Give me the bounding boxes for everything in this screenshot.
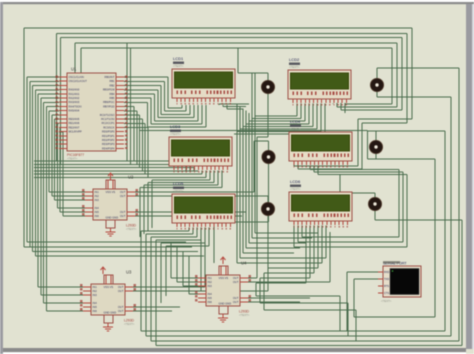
power +V U3 — [101, 267, 106, 274]
svg-text:OSC1/CLKIN: OSC1/CLKIN — [69, 75, 85, 79]
serial port P1 — [378, 261, 421, 303]
svg-text:<TEXT>: <TEXT> — [173, 64, 184, 68]
svg-text:OUT: OUT — [120, 210, 126, 214]
wire middle vertical bus — [219, 73, 318, 263]
svg-text:RA2/AN2: RA2/AN2 — [69, 96, 80, 100]
svg-text:OSC2/CLKOUT: OSC2/CLKOUT — [69, 79, 88, 83]
wire under-U1 bundle — [34, 161, 206, 178]
svg-text:GND GND: GND GND — [219, 301, 232, 305]
svg-text:<TEXT>: <TEXT> — [290, 187, 301, 191]
svg-text:RB1: RB1 — [109, 79, 115, 83]
svg-text:IN5: IN5 — [208, 296, 213, 300]
svg-text:RC1/T1OSI: RC1/T1OSI — [101, 117, 115, 121]
wire motor M3 net — [214, 141, 269, 263]
svg-text:<TEXT>: <TEXT> — [170, 132, 181, 136]
window left border — [0, 2, 3, 354]
svg-text:IN3: IN3 — [95, 198, 100, 202]
svg-text:RB3/PGM: RB3/PGM — [103, 88, 115, 92]
svg-text:RD0/PSP0: RD0/PSP0 — [102, 130, 115, 134]
svg-text:RB5: RB5 — [109, 96, 115, 100]
svg-text:GND GND: GND GND — [106, 215, 119, 219]
svg-text:RC3/SCK: RC3/SCK — [103, 125, 115, 129]
motor M5 — [261, 202, 274, 215]
svg-text:RD1/PSP1: RD1/PSP1 — [102, 134, 115, 138]
svg-text:IN2: IN2 — [93, 289, 98, 293]
LCD LCD5 — [172, 181, 235, 230]
svg-text:<TEXT>: <TEXT> — [381, 299, 392, 303]
svg-text:RA0/AN0: RA0/AN0 — [69, 88, 80, 92]
svg-text:IN5: IN5 — [93, 305, 98, 309]
wire LCD5 feeds — [141, 228, 209, 346]
svg-text:IN4: IN4 — [95, 206, 100, 210]
microcontroller U1 PIC16F877 — [56, 67, 128, 161]
wire U4 out — [248, 232, 330, 302]
wire LCD2 feeds — [234, 104, 325, 135]
wire U2 out — [135, 192, 254, 216]
svg-text:IN2: IN2 — [208, 280, 213, 284]
wire LCD6 feeds — [256, 226, 326, 311]
svg-text:IN6: IN6 — [95, 214, 100, 218]
wire motor M1 net — [238, 48, 268, 278]
svg-text:OUT: OUT — [233, 300, 239, 304]
svg-text:<TEXT>: <TEXT> — [126, 227, 137, 231]
svg-text:LCD6: LCD6 — [290, 179, 301, 184]
svg-text:CTS: CTS — [384, 292, 389, 295]
svg-text:IN3: IN3 — [93, 293, 98, 297]
svg-text:IN6: IN6 — [208, 300, 213, 304]
wire left staircase bus — [27, 77, 204, 311]
svg-text:RA3/AN3: RA3/AN3 — [69, 100, 80, 104]
motor M1 — [261, 80, 274, 93]
svg-text:U2: U2 — [128, 175, 134, 180]
svg-text:OUT: OUT — [233, 280, 239, 284]
svg-text:RC0/T1OSO: RC0/T1OSO — [100, 113, 115, 117]
motor M2 — [370, 78, 383, 91]
svg-text:<TEXT>: <TEXT> — [67, 157, 78, 161]
motor M4 — [369, 140, 382, 153]
wire motor M4 net — [368, 131, 446, 331]
svg-text:IN1: IN1 — [93, 285, 98, 289]
svg-text:OUT: OUT — [120, 190, 126, 194]
svg-text:RC2/CCP1: RC2/CCP1 — [102, 121, 115, 125]
svg-text:OUT: OUT — [233, 276, 239, 280]
svg-text:IN1: IN1 — [208, 276, 213, 280]
wire U1 right fan — [124, 43, 206, 178]
svg-text:LCD1: LCD1 — [173, 56, 184, 61]
wire motor M5 net — [133, 196, 268, 291]
driver U4 L293D — [195, 261, 251, 318]
svg-text:OUT: OUT — [120, 194, 126, 198]
svg-text:RA5/AN4: RA5/AN4 — [69, 109, 80, 113]
power +V U2 — [108, 173, 113, 180]
svg-text:<TEXT>: <TEXT> — [239, 313, 250, 317]
wire bottom bus y345 — [156, 345, 462, 347]
svg-text:OUT: OUT — [233, 296, 239, 300]
wire motor M2 net — [377, 68, 459, 341]
wire top bus line2 — [57, 34, 408, 170]
wire top bus line5 — [81, 48, 392, 104]
ground U2 — [106, 228, 116, 236]
wire top bus line3 — [61, 38, 403, 165]
svg-text:MCLR/VPP: MCLR/VPP — [69, 130, 83, 134]
wire bottom bus y336 — [146, 335, 451, 337]
svg-text:OUT: OUT — [118, 305, 124, 309]
svg-text:IN3: IN3 — [208, 284, 213, 288]
LCD LCD1 — [172, 56, 235, 105]
svg-text:RXD: RXD — [384, 271, 389, 274]
svg-text:IN4: IN4 — [93, 301, 98, 305]
svg-text:RB2: RB2 — [109, 83, 115, 87]
LCD LCD6 — [289, 179, 352, 228]
svg-text:OUT: OUT — [118, 285, 124, 289]
driver U3 L293D — [80, 270, 136, 327]
LCD LCD3 — [169, 124, 232, 173]
svg-text:<TEXT>: <TEXT> — [173, 189, 184, 193]
svg-text:VSS VS: VSS VS — [219, 276, 229, 280]
wire bottom bus y317 — [354, 279, 435, 317]
svg-text:RB0/INT: RB0/INT — [105, 75, 115, 79]
wire bottom bus y341 — [151, 340, 459, 342]
wire U3 out — [133, 228, 205, 312]
svg-text:VSS VS: VSS VS — [104, 285, 114, 289]
svg-text:RA1/AN1: RA1/AN1 — [69, 92, 80, 96]
driver U2 L293D — [82, 175, 138, 232]
wire top bus line1 — [24, 28, 412, 247]
wire LCD3 lower feeds — [140, 171, 222, 238]
svg-text:LCD5: LCD5 — [173, 181, 184, 186]
svg-text:RD2/PSP2: RD2/PSP2 — [102, 138, 115, 142]
svg-text:RE2/AN7: RE2/AN7 — [69, 125, 80, 129]
svg-text:TXD: TXD — [384, 278, 389, 281]
svg-text:<TEXT>: <TEXT> — [289, 65, 300, 69]
svg-text:RB6/PGC: RB6/PGC — [103, 100, 115, 104]
motor M3 — [262, 150, 275, 163]
wire serial rxd — [347, 272, 378, 331]
svg-text:RE1/AN6: RE1/AN6 — [69, 121, 80, 125]
motor M6 — [368, 197, 381, 210]
svg-text:<TEXT>: <TEXT> — [124, 322, 135, 326]
power +V U4 — [221, 257, 226, 264]
wire lower nest — [256, 296, 356, 341]
svg-text:<TEXT>: <TEXT> — [290, 127, 301, 131]
svg-text:RB4: RB4 — [109, 92, 115, 96]
wire mid horizontal — [140, 130, 368, 132]
wire LCD2 right pin drops — [333, 104, 345, 114]
svg-text:OUT: OUT — [118, 289, 124, 293]
LCD LCD4 — [289, 119, 352, 168]
LCD LCD2 — [288, 57, 351, 106]
svg-text:IN6: IN6 — [93, 309, 98, 313]
svg-text:RB7/PGD: RB7/PGD — [103, 104, 115, 108]
svg-text:LCD3: LCD3 — [170, 124, 181, 129]
svg-text:IN4: IN4 — [208, 292, 213, 296]
wire motor M6 net — [340, 174, 462, 345]
svg-text:OUT: OUT — [118, 309, 124, 313]
svg-text:VSS VS: VSS VS — [106, 190, 116, 194]
ground U4 — [218, 314, 228, 322]
wire top bus line4 — [75, 43, 397, 107]
svg-text:RD3/PSP3: RD3/PSP3 — [102, 142, 115, 146]
svg-text:U4: U4 — [241, 261, 247, 266]
svg-text:GND GND: GND GND — [104, 310, 117, 314]
svg-text:IN2: IN2 — [95, 194, 100, 198]
svg-text:LCD4: LCD4 — [290, 119, 301, 124]
svg-text:RE0/AN5: RE0/AN5 — [69, 117, 80, 121]
window right border — [466, 4, 474, 349]
svg-text:LCD2: LCD2 — [289, 57, 300, 62]
svg-text:RD4/PSP4: RD4/PSP4 — [102, 146, 115, 150]
window bottom border — [3, 348, 466, 354]
svg-text:U1: U1 — [71, 67, 77, 72]
svg-text:RA4/T0CKI: RA4/T0CKI — [69, 104, 82, 108]
window top border — [0, 0, 474, 4]
svg-text:U3: U3 — [126, 270, 132, 275]
ground U3 — [103, 323, 113, 331]
wire LCD4 feeds — [294, 166, 407, 248]
svg-text:OUT: OUT — [120, 214, 126, 218]
svg-text:RTS: RTS — [384, 285, 389, 288]
svg-text:IN5: IN5 — [95, 210, 100, 214]
wire bottom bus y331 — [141, 330, 445, 332]
svg-text:IN1: IN1 — [95, 190, 100, 194]
wire mid-low bundle to U4 — [24, 242, 198, 294]
